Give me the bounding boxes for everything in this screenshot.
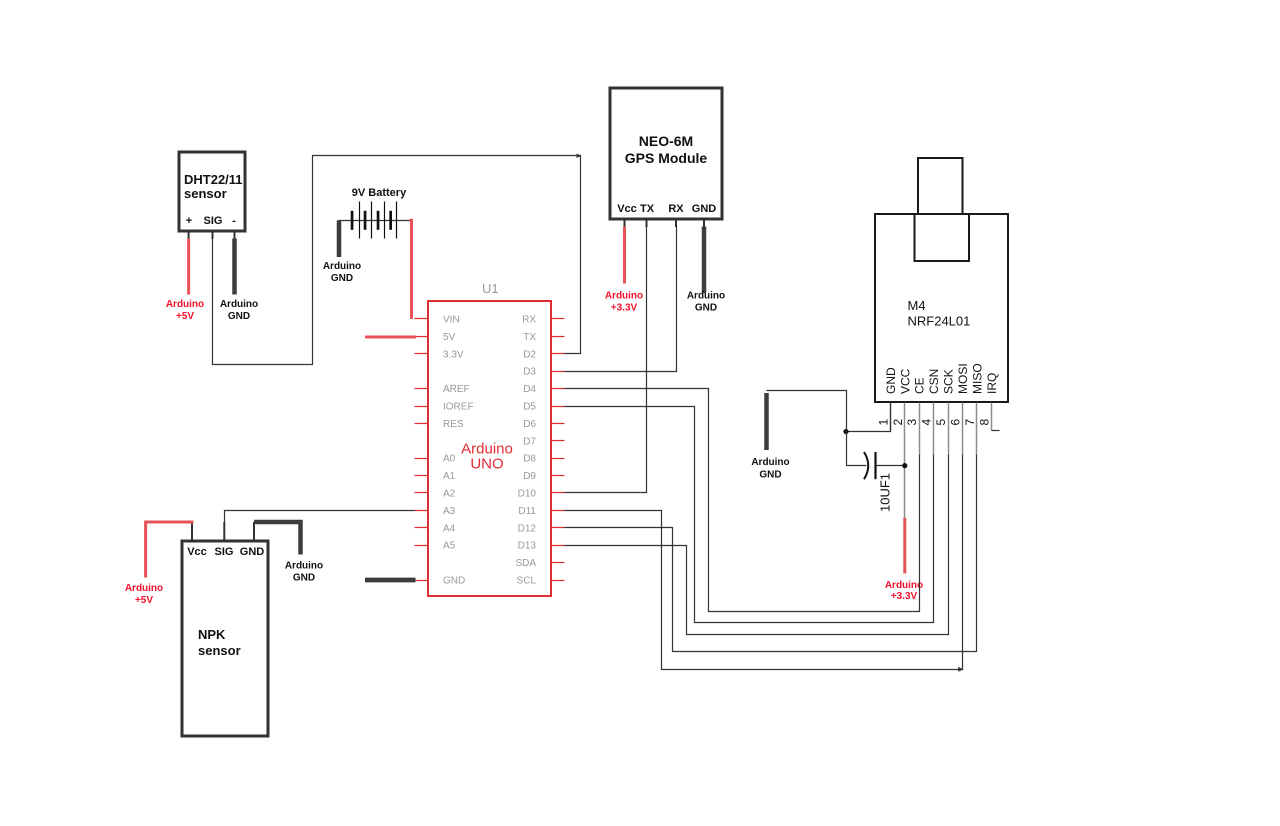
svg-text:SCL: SCL <box>517 576 537 587</box>
svg-text:A0: A0 <box>443 454 456 465</box>
svg-text:5: 5 <box>934 419 948 426</box>
svg-text:TX: TX <box>523 332 536 343</box>
junction arrow on SIG wire at D2 drop <box>577 154 582 158</box>
svg-text:10UF1: 10UF1 <box>878 473 893 512</box>
wire net D4-to-CE <box>565 389 920 612</box>
svg-text:GND: GND <box>240 546 265 558</box>
svg-text:2: 2 <box>891 419 905 426</box>
svg-text:D12: D12 <box>518 523 537 534</box>
svg-text:GND: GND <box>443 576 465 587</box>
pin - of DHT <box>232 215 236 239</box>
M4 pin leg 2 <box>904 403 906 519</box>
wire NPK Vcc to +5V (red) <box>146 522 194 578</box>
svg-text:M4: M4 <box>908 298 926 313</box>
svg-text:Arduino: Arduino <box>605 291 643 302</box>
U1 right pin legs <box>551 319 565 581</box>
svg-text:RES: RES <box>443 419 464 430</box>
pin Vcc of NPK <box>187 522 207 558</box>
M4 pin leg 8 <box>991 403 993 431</box>
svg-text:GND: GND <box>331 273 353 284</box>
wire net D13-to-SCK <box>565 455 949 635</box>
pin RX of GPS <box>668 203 684 227</box>
svg-text:4: 4 <box>920 419 934 426</box>
svg-text:D7: D7 <box>523 436 536 447</box>
U1 left pin legs <box>415 319 429 581</box>
svg-text:UNO: UNO <box>470 456 503 473</box>
svg-text:+3.3V: +3.3V <box>891 591 918 602</box>
svg-text:Arduino: Arduino <box>285 561 323 572</box>
wire GND junction to ground symbol <box>767 391 847 432</box>
svg-text:Arduino: Arduino <box>125 583 163 594</box>
svg-text:NRF24L01: NRF24L01 <box>908 314 971 329</box>
svg-text:Vcc: Vcc <box>617 203 637 215</box>
wire DHT + to +5V (red) <box>187 239 190 295</box>
svg-text:GND: GND <box>884 367 898 394</box>
svg-text:A3: A3 <box>443 506 456 517</box>
svg-text:5V: 5V <box>443 332 456 343</box>
wire M4 VCC to +3.3V (red) <box>903 518 906 574</box>
svg-text:VIN: VIN <box>443 315 460 326</box>
svg-text:9V Battery: 9V Battery <box>352 187 407 199</box>
svg-text:A4: A4 <box>443 523 456 534</box>
svg-text:6: 6 <box>949 419 963 426</box>
ground wire NPK GND (thick) <box>254 522 301 555</box>
svg-text:3.3V: 3.3V <box>443 349 464 360</box>
M4 antenna stub outer <box>918 158 963 214</box>
module M4 NRF24L01 body <box>875 214 1008 402</box>
ground wire battery minus (thick) <box>337 220 342 257</box>
svg-text:1: 1 <box>876 419 890 426</box>
power label Arduino +5V (NPK) <box>125 583 163 606</box>
svg-text:MISO: MISO <box>971 363 985 394</box>
svg-text:3: 3 <box>905 419 919 426</box>
svg-text:Arduino: Arduino <box>220 299 258 310</box>
ground wire NRF GND (thick) <box>764 393 769 450</box>
svg-text:D11: D11 <box>518 506 536 517</box>
svg-text:U1: U1 <box>482 281 499 296</box>
svg-text:D8: D8 <box>523 454 536 465</box>
svg-text:IRQ: IRQ <box>985 373 999 394</box>
svg-text:A2: A2 <box>443 489 456 500</box>
wire net GPSTX-to-D10 <box>565 227 647 493</box>
svg-text:+3.3V: +3.3V <box>611 303 638 314</box>
M4 pin leg 5 <box>948 403 950 455</box>
sensor U-DHT body <box>179 152 245 231</box>
M4 pin leg 4 <box>933 403 935 455</box>
svg-text:+5V: +5V <box>135 595 153 606</box>
pin GND of GPS <box>692 203 717 227</box>
wire net D11-to-MOSI <box>565 455 963 670</box>
svg-text:Arduino: Arduino <box>323 261 361 272</box>
svg-text:GND: GND <box>228 311 250 322</box>
ground label Arduino GND (NRF) <box>751 457 789 481</box>
wire GPS Vcc to +3.3V (red) <box>623 227 626 284</box>
wire net SIG-to-D2 <box>213 156 581 365</box>
sensor U3 NPK body <box>182 541 268 736</box>
capacitor C1 straight plate <box>874 452 876 479</box>
ground wire DHT - (thick) <box>232 239 237 295</box>
battery BT1 cell plates <box>351 202 397 239</box>
pin SIG of DHT <box>204 215 223 239</box>
M4 antenna stub inner <box>915 214 970 261</box>
svg-text:-: - <box>232 215 236 227</box>
svg-text:GND: GND <box>695 303 717 314</box>
svg-text:Vcc: Vcc <box>187 546 207 558</box>
svg-text:RX: RX <box>522 315 536 326</box>
pin TX of GPS <box>640 203 655 227</box>
svg-text:TX: TX <box>640 203 655 215</box>
svg-text:SIG: SIG <box>215 546 234 558</box>
svg-text:GND: GND <box>759 470 781 481</box>
svg-text:GND: GND <box>692 203 717 215</box>
power label Arduino +3.3V (NRF) <box>885 580 923 602</box>
svg-text:SDA: SDA <box>515 558 536 569</box>
ground label Arduino GND (GPS) <box>687 291 725 314</box>
wire M4 pin8 IRQ stub <box>992 430 1000 432</box>
svg-text:VCC: VCC <box>898 368 912 394</box>
svg-text:Arduino: Arduino <box>687 291 725 302</box>
ground wire U1 GND stub (thick) <box>365 578 416 583</box>
wire battery plus to VIN (red) <box>410 220 412 319</box>
wire net D5-to-CSN <box>565 407 934 623</box>
op-amp U1 Arduino UNO body <box>428 281 551 596</box>
pin + of DHT <box>186 215 192 239</box>
svg-text:D13: D13 <box>518 541 537 552</box>
capacitor C1 curved plate <box>864 452 868 479</box>
U1 left pin names <box>443 315 474 587</box>
svg-text:D3: D3 <box>523 367 536 378</box>
battery BT1 lead wire <box>339 220 411 222</box>
svg-text:A5: A5 <box>443 541 456 552</box>
svg-text:SIG: SIG <box>204 215 223 227</box>
ground label Arduino GND (DHT) <box>220 299 258 322</box>
svg-text:+: + <box>186 215 192 227</box>
M4 pin leg 1 <box>890 403 892 431</box>
svg-text:D5: D5 <box>523 402 536 413</box>
svg-text:SCK: SCK <box>942 369 956 394</box>
svg-text:D10: D10 <box>518 489 537 500</box>
svg-text:Arduino: Arduino <box>166 299 204 310</box>
power label Arduino +3.3V (GPS) <box>605 291 643 314</box>
wire capacitor C1 to VCC net <box>877 465 905 467</box>
wire GND junction to capacitor C1 <box>847 432 867 466</box>
svg-text:NPK: NPK <box>198 627 226 642</box>
pin Vcc of GPS <box>617 203 637 227</box>
svg-text:NEO-6M: NEO-6M <box>639 133 693 149</box>
ground label Arduino GND (NPK) <box>285 561 323 584</box>
junction arrow on MOSI wire corner <box>958 667 964 672</box>
svg-text:Arduino: Arduino <box>885 580 923 591</box>
U1 right pin names <box>515 315 536 587</box>
svg-text:AREF: AREF <box>443 384 470 395</box>
M4 pin leg 3 <box>919 403 921 455</box>
svg-text:GND: GND <box>293 573 315 584</box>
junction node at M4 GND <box>843 429 848 434</box>
svg-text:DHT22/11: DHT22/11 <box>184 172 243 187</box>
ground wire GPS GND (thick) <box>702 227 707 294</box>
junction node at M4 VCC <box>902 463 907 468</box>
svg-text:D9: D9 <box>523 471 536 482</box>
wire net GPSRX-to-D3 <box>565 227 677 372</box>
svg-text:D2: D2 <box>523 349 536 360</box>
svg-text:MOSI: MOSI <box>956 363 970 394</box>
pin GND of NPK <box>240 522 265 558</box>
svg-text:sensor: sensor <box>184 186 227 201</box>
M4 pin leg 6 <box>962 403 964 455</box>
svg-text:GPS Module: GPS Module <box>625 150 708 166</box>
power label Arduino +5V (DHT) <box>166 299 204 322</box>
svg-text:sensor: sensor <box>198 643 241 658</box>
svg-text:+5V: +5V <box>176 311 194 322</box>
wire 5V rail stub (thick red) <box>365 336 416 339</box>
svg-text:IOREF: IOREF <box>443 402 474 413</box>
svg-text:A1: A1 <box>443 471 456 482</box>
wire M4 GND net to junction <box>847 403 891 432</box>
svg-text:D6: D6 <box>523 419 536 430</box>
wire net NPKSIG-to-A3 <box>225 511 415 523</box>
svg-text:7: 7 <box>963 419 977 426</box>
pin SIG of NPK <box>215 522 234 558</box>
svg-text:RX: RX <box>668 203 684 215</box>
svg-text:8: 8 <box>977 419 991 426</box>
M4 pin leg 7 <box>976 403 978 455</box>
svg-text:CSN: CSN <box>927 369 941 394</box>
module U2 NEO-6M GPS body <box>610 88 722 219</box>
svg-text:CE: CE <box>913 377 927 394</box>
svg-text:D4: D4 <box>523 384 536 395</box>
ground label Arduino GND (battery) <box>323 261 361 284</box>
wire net D12-to-MISO <box>565 455 977 652</box>
svg-text:Arduino: Arduino <box>751 457 789 468</box>
